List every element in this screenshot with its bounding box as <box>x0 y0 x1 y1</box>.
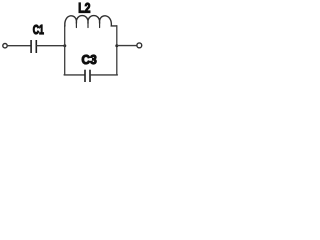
wire left branch vertical <box>64 26 66 75</box>
node right junction dot <box>115 44 118 47</box>
node left junction dot <box>63 44 66 47</box>
svg-text:L2: L2 <box>78 0 90 16</box>
right terminal circle <box>137 43 142 48</box>
svg-text:C1: C1 <box>33 23 44 37</box>
left terminal circle <box>3 44 7 48</box>
wire bottom right segment <box>91 74 118 76</box>
capacitor C1 <box>31 40 36 53</box>
wire C1 to left junction <box>37 45 65 47</box>
wire bottom left segment <box>64 74 84 76</box>
wire left terminal to C1 <box>8 45 31 47</box>
svg-text:C3: C3 <box>82 53 97 67</box>
capacitor C3 <box>85 70 90 82</box>
wire right branch vertical <box>116 26 118 75</box>
inductor L2 <box>65 16 117 28</box>
wire right junction to right terminal <box>118 45 137 47</box>
